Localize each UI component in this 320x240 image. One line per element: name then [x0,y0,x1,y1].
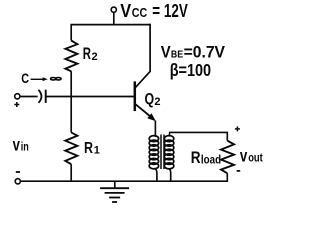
label vout [240,145,263,165]
wire secondary bottom lead [169,169,171,182]
label R2 [83,45,98,63]
svg-text:CC: CC [132,5,148,20]
svg-text:v: v [240,145,248,165]
transistor Q2 emitter [136,104,156,121]
transformer T1 core [161,135,164,170]
wire emitter to transformer primary [154,121,156,137]
wire R2 bottom to base junction [70,71,72,97]
wire R1 top lead [70,96,72,133]
capacitor C curved plate [39,90,42,103]
terminal input bottom [15,179,20,184]
svg-text:out: out [248,153,263,165]
label Q2 [145,91,161,108]
wire input to capacitor [20,96,38,98]
transformer T1 secondary winding [164,136,173,169]
svg-text:V: V [120,1,131,21]
wire R1 bottom lead [70,164,72,182]
wire VCC stem [113,12,115,25]
svg-text:in: in [21,141,29,153]
wire base [46,96,135,98]
svg-text:V: V [161,43,171,62]
label Rload [191,149,221,167]
svg-text:= 12V: = 12V [152,1,188,21]
resistor Rload [221,141,234,174]
svg-text:R: R [84,140,93,157]
label plus vout [235,126,240,131]
capacitor C straight plate [45,90,47,103]
label VCC = 12V [120,1,188,21]
svg-text:R: R [83,45,91,63]
svg-text:1: 1 [94,145,100,157]
svg-text:C: C [21,71,29,86]
ground [100,181,129,202]
transformer T1 primary winding [149,136,158,169]
svg-text:2: 2 [154,96,160,108]
svg-text:β=100: β=100 [170,60,212,80]
wire primary bottom lead [154,168,157,182]
label R1 [84,140,100,157]
svg-text:Q: Q [145,91,155,108]
transistor Q2 collector [136,24,151,88]
wire Rload bottom lead [226,173,228,182]
svg-text:load: load [201,155,221,167]
terminal input top [15,94,20,99]
wire bottom rail [20,180,227,182]
label minus vout [237,170,241,172]
resistor R2 [65,41,77,72]
label C arrow infinity [21,71,61,86]
svg-text:R: R [191,149,201,167]
label vin [13,135,29,155]
wire secondary top lead [169,132,227,140]
svg-text:v: v [13,135,20,155]
terminal VCC [111,7,116,12]
wire R2 top lead [70,25,72,41]
label VBE=0.7V [161,43,226,62]
label minus input [16,171,20,173]
svg-text:2: 2 [92,51,98,63]
svg-text:BE: BE [171,49,183,61]
resistor R1 [65,132,77,164]
label plus input [14,102,19,107]
svg-text:=0.7V: =0.7V [184,43,226,62]
transistor Q2 base bar [134,81,137,111]
wire top rail [70,24,150,26]
